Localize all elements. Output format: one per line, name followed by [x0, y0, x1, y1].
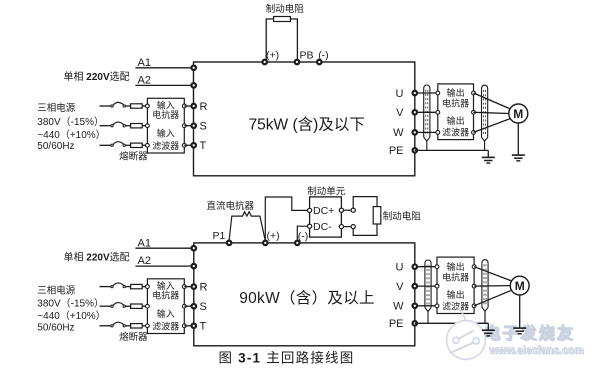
label W (bottom) — [393, 301, 404, 313]
label 单相220V选配 (top) — [64, 70, 130, 83]
filter output terminal R (top) — [182, 104, 186, 108]
svg-text:制动电阻: 制动电阻 — [266, 3, 305, 15]
label T (bottom) — [200, 321, 207, 333]
wire V to output filter (bottom) — [415, 285, 437, 287]
terminal A1 (top) — [191, 66, 196, 71]
label input reactor line2 (top) — [152, 109, 179, 120]
ground PE (bottom) — [482, 330, 495, 336]
label input reactor line1 (bottom) — [157, 280, 175, 291]
wire motor U (top) — [474, 93, 511, 109]
terminal A1 (bottom) — [192, 246, 197, 251]
connector terminal lower — [351, 225, 355, 229]
terminal PE (top) — [413, 148, 418, 153]
wire switch-fuse T (bottom) — [125, 325, 130, 327]
label R (bottom) — [200, 281, 208, 293]
label S (top) — [200, 121, 207, 133]
svg-text:(+): (+) — [267, 230, 280, 242]
svg-text:单相 220V选配: 单相 220V选配 — [64, 250, 130, 263]
terminal DC+ on braking unit — [308, 208, 312, 212]
svg-text:S: S — [200, 301, 207, 313]
svg-text:制动电阻: 制动电阻 — [383, 210, 422, 222]
breaker switch T (top) — [111, 142, 126, 147]
terminal PB — [295, 60, 300, 65]
ground motor (top) — [512, 155, 525, 161]
wire PB to braking resistor — [290, 19, 297, 62]
terminal U (bottom) — [413, 264, 418, 269]
fuse R (bottom) — [131, 284, 143, 288]
terminal DC- on braking unit — [308, 224, 312, 228]
label input filter line2 (top) — [152, 140, 179, 151]
wire (+) to DC+ — [265, 197, 307, 241]
svg-text:PB: PB — [300, 50, 314, 62]
label output reactor line2 (top) — [442, 98, 469, 109]
label 75kW rating — [249, 115, 365, 133]
label U (bottom) — [396, 262, 404, 274]
svg-text:R: R — [200, 281, 208, 293]
wire motor ground (bottom) — [519, 295, 521, 328]
svg-text:75kW (含)及以下: 75kW (含)及以下 — [249, 115, 365, 133]
label (+) terminal (bottom) — [267, 230, 280, 242]
label output filter line2 (top) — [442, 127, 469, 138]
output box right terminal U (top) — [472, 91, 476, 95]
label three-phase source (top) — [37, 102, 76, 114]
wire W to output filter (top) — [415, 131, 438, 133]
wire PE (bottom) — [415, 322, 489, 324]
svg-text:DC-: DC- — [313, 221, 332, 233]
breaker switch S (bottom) — [111, 303, 126, 308]
terminal S (top) — [191, 123, 196, 128]
input reactor/filter box (top) — [147, 98, 184, 153]
label W (top) — [393, 127, 404, 139]
motor M (bottom) — [510, 276, 529, 295]
wire A2 (bottom) — [135, 265, 193, 267]
svg-text:滤波器: 滤波器 — [442, 127, 469, 138]
fuse R (top) — [131, 104, 143, 108]
braking resistor RB (top) — [274, 17, 291, 22]
label DC- — [313, 221, 332, 233]
label PE (top) — [389, 145, 404, 157]
watermark logo circle — [447, 306, 486, 360]
terminal P1 — [227, 241, 232, 246]
motor M (top) — [509, 104, 528, 123]
terminal T (bottom) — [192, 324, 197, 329]
label braking resistor 制动电阻 (top) — [266, 3, 305, 15]
output box left terminal V (bottom) — [435, 284, 439, 288]
wire switch-fuse R (top) — [125, 105, 130, 107]
svg-text:图 3-1 主回路接线图: 图 3-1 主回路接线图 — [219, 349, 355, 365]
svg-text:三相电源: 三相电源 — [37, 285, 76, 297]
wire filter-drive S (top) — [184, 125, 193, 127]
svg-text:V: V — [396, 281, 404, 293]
label 50/60Hz (top) — [37, 141, 74, 152]
svg-text:电抗器: 电抗器 — [442, 98, 469, 109]
filter output terminal S (bottom) — [182, 304, 186, 308]
inverter drive box (90kW) — [194, 243, 415, 346]
svg-text:输出: 输出 — [447, 261, 465, 272]
svg-text:P1: P1 — [213, 230, 226, 242]
filter input terminal S (bottom) — [146, 304, 150, 308]
wire switch-fuse T (top) — [125, 144, 130, 146]
svg-text:DC+: DC+ — [313, 205, 334, 217]
output box left terminal U (top) — [436, 91, 440, 95]
svg-text:熔断器: 熔断器 — [119, 151, 148, 163]
label 380V -15% (top) — [37, 116, 104, 128]
svg-text:制动单元: 制动单元 — [307, 185, 346, 197]
wire fuse-filter T (top) — [142, 144, 147, 146]
wire source R (bottom) — [100, 286, 112, 288]
label R (top) — [200, 101, 208, 113]
label U (top) — [396, 88, 404, 100]
svg-text:R: R — [200, 101, 208, 113]
svg-text:A2: A2 — [138, 74, 151, 86]
terminal V (top) — [413, 110, 418, 115]
terminal V (bottom) — [413, 284, 418, 289]
fuse T (top) — [131, 143, 143, 147]
label A1 (top) — [138, 57, 151, 69]
label braking resistor 制动电阻 (bottom) — [383, 210, 422, 222]
wire fuse-filter R (bottom) — [142, 286, 147, 288]
wire switch-fuse S (top) — [125, 125, 130, 127]
terminal (-) (bottom) — [295, 241, 300, 246]
filter input terminal T (bottom) — [146, 324, 150, 328]
DC reactor L1 zigzag — [229, 212, 265, 241]
fuse S (top) — [131, 124, 143, 128]
svg-text:T: T — [200, 140, 207, 152]
terminal (+) (bottom) — [263, 241, 268, 246]
wire motor W (top) — [474, 119, 511, 133]
terminal A2 (bottom) — [192, 264, 197, 269]
wire U to output filter (bottom) — [415, 266, 437, 268]
output box right terminal V (top) — [472, 110, 476, 114]
svg-text:90kW（含）及以上: 90kW（含）及以上 — [239, 289, 375, 307]
label output filter line1 (top) — [447, 115, 465, 126]
label input reactor line1 (top) — [157, 100, 175, 111]
wire filter-drive T (bottom) — [184, 325, 193, 327]
breaker switch S (top) — [111, 122, 126, 127]
svg-text:输入: 输入 — [157, 308, 175, 319]
wire PE corner redraw (bottom) — [481, 322, 488, 324]
label input filter line1 (bottom) — [157, 308, 175, 319]
output box left terminal W (top) — [436, 131, 440, 135]
svg-text:A1: A1 — [138, 57, 151, 69]
breaker switch R (top) — [111, 102, 126, 107]
label 440 +10% (top) — [37, 129, 105, 141]
svg-text:U: U — [396, 88, 404, 100]
wire filter-drive R (top) — [184, 105, 193, 107]
svg-text:W: W — [393, 127, 404, 139]
label S (bottom) — [200, 301, 207, 313]
label PE (bottom) — [389, 318, 404, 330]
wire motor W (bottom) — [474, 290, 512, 306]
wire motor U (bottom) — [474, 267, 512, 281]
wire source T (top) — [100, 144, 112, 146]
fuse S (bottom) — [131, 304, 143, 308]
wire source S (bottom) — [100, 305, 112, 307]
svg-text:输入: 输入 — [157, 280, 175, 291]
label output filter line2 (bottom) — [442, 300, 469, 311]
filter output terminal S (top) — [182, 124, 186, 128]
ground motor (bottom) — [513, 328, 526, 334]
wire motor V (top) — [474, 112, 509, 113]
braking resistor RB (bottom) — [373, 207, 381, 224]
caption 图3-1 主回路接线图 — [219, 349, 355, 365]
filter output terminal T (top) — [182, 143, 186, 147]
ground PE (top) — [482, 157, 495, 163]
label A2 (top) — [138, 74, 151, 86]
svg-text:S: S — [200, 121, 207, 133]
label braking unit 制动单元 — [307, 185, 346, 197]
wire W to output filter (bottom) — [415, 305, 437, 307]
terminal PE (bottom) — [413, 321, 418, 326]
wire fuse-filter R (top) — [142, 105, 147, 107]
output reactor/filter box (top) — [438, 84, 474, 140]
output box left terminal U (bottom) — [435, 265, 439, 269]
connector terminal upper — [351, 208, 355, 212]
label input reactor line2 (bottom) — [152, 290, 179, 301]
label output reactor line1 (bottom) — [447, 261, 465, 272]
wire U to output filter (top) — [415, 92, 438, 94]
wire fuse-filter S (top) — [142, 125, 147, 127]
svg-text:(+): (+) — [266, 50, 279, 62]
label 90kW rating — [239, 289, 375, 307]
terminal R (bottom) — [192, 284, 197, 289]
svg-text:电抗器: 电抗器 — [152, 109, 179, 120]
wire motor ground (top) — [517, 123, 519, 155]
braking unit right terminal lower — [339, 225, 343, 229]
cable shield 1 (bottom) — [425, 260, 431, 323]
wire (+) to braking resistor — [266, 19, 273, 62]
filter input terminal T (top) — [146, 143, 150, 147]
wire PE (top) — [415, 149, 489, 151]
svg-text:V: V — [396, 107, 404, 119]
svg-text:T: T — [200, 321, 207, 333]
wire PE down to ground (top) — [487, 150, 489, 157]
terminal R (top) — [191, 104, 196, 109]
svg-text:W: W — [393, 301, 404, 313]
wire (-) to DC- — [297, 226, 307, 241]
svg-text:三相电源: 三相电源 — [37, 102, 76, 114]
label T (top) — [200, 140, 207, 152]
terminal W (top) — [413, 130, 418, 135]
label three-phase source (bottom) — [37, 285, 76, 297]
label 单相220V选配 (bottom) — [64, 250, 130, 263]
terminal T (top) — [191, 143, 196, 148]
svg-text:PE: PE — [389, 318, 404, 330]
wire source S (top) — [100, 125, 112, 127]
label A2 (bottom) — [138, 255, 151, 267]
svg-text:电抗器: 电抗器 — [152, 290, 179, 301]
label fuse 熔断器 (bottom) — [119, 331, 148, 343]
wire fuse-filter T (bottom) — [142, 325, 147, 327]
terminal U (top) — [413, 91, 418, 96]
breaker switch R (bottom) — [111, 283, 126, 288]
svg-text:A2: A2 — [138, 255, 151, 267]
wire switch-fuse R (bottom) — [125, 286, 130, 288]
svg-text:PE: PE — [389, 145, 404, 157]
svg-text:输入: 输入 — [157, 128, 175, 139]
svg-text:50/60Hz: 50/60Hz — [37, 141, 74, 152]
svg-text:A1: A1 — [138, 237, 151, 249]
wire filter-drive R (bottom) — [184, 286, 193, 288]
output box right terminal W (top) — [472, 131, 476, 135]
svg-text:滤波器: 滤波器 — [152, 320, 179, 331]
braking unit box — [310, 197, 342, 237]
wire V to output filter (top) — [415, 111, 438, 113]
svg-text:~440（+10%）: ~440（+10%） — [37, 310, 105, 322]
filter output terminal T (bottom) — [182, 324, 186, 328]
svg-text:熔断器: 熔断器 — [119, 331, 148, 343]
cable shield 2 (bottom) — [482, 260, 488, 324]
svg-text:50/60Hz: 50/60Hz — [37, 322, 74, 333]
wire motor V (bottom) — [474, 285, 510, 288]
svg-text:直流电抗器: 直流电抗器 — [207, 200, 255, 212]
label DC+ — [313, 205, 334, 217]
filter output terminal R (bottom) — [182, 285, 186, 289]
inverter drive box (75kW) — [194, 62, 415, 176]
label (+) terminal (top) — [266, 50, 279, 62]
label PB terminal — [300, 50, 314, 62]
svg-text:电子发烧友: 电子发烧友 — [484, 324, 575, 343]
wire A2 (top) — [135, 84, 193, 86]
svg-text:380V（-15%）: 380V（-15%） — [37, 116, 104, 128]
wire from braking resistor bottom — [353, 224, 377, 235]
terminal (-) (top) — [317, 60, 322, 65]
wire filter-drive S (bottom) — [184, 305, 193, 307]
wire shield drop redraw (bottom) — [484, 311, 486, 323]
label output reactor line2 (bottom) — [442, 271, 469, 282]
output box right terminal U (bottom) — [472, 265, 476, 269]
terminal A2 (top) — [191, 83, 196, 88]
label (-) terminal (top) — [318, 50, 329, 62]
output box left terminal W (bottom) — [435, 304, 439, 308]
terminal (+) (top) — [262, 60, 267, 65]
label V (bottom) — [396, 281, 404, 293]
fuse T (bottom) — [131, 324, 143, 328]
wire source T (bottom) — [100, 325, 112, 327]
svg-text:www.elecfans.com: www.elecfans.com — [488, 345, 583, 357]
output box left terminal V (top) — [436, 110, 440, 114]
svg-text:单相 220V选配: 单相 220V选配 — [64, 70, 130, 83]
svg-text:输入: 输入 — [157, 100, 175, 111]
output reactor/filter box (bottom) — [437, 257, 474, 313]
label output reactor line1 (top) — [447, 87, 465, 98]
svg-text:U: U — [396, 262, 404, 274]
label 50/60Hz (bottom) — [37, 322, 74, 333]
label output filter line1 (bottom) — [447, 289, 465, 300]
wire A1 (bottom) — [135, 247, 193, 249]
label (-) terminal (bottom) — [298, 231, 309, 243]
filter input terminal S (top) — [146, 124, 150, 128]
svg-text:输出: 输出 — [447, 87, 465, 98]
wire to braking resistor top — [353, 197, 377, 209]
svg-text:输出: 输出 — [447, 289, 465, 300]
svg-text:输出: 输出 — [447, 115, 465, 126]
label 380V -15% (bottom) — [37, 298, 104, 310]
input reactor/filter box (bottom) — [147, 279, 184, 334]
svg-text:380V（-15%）: 380V（-15%） — [37, 298, 104, 310]
svg-text:M: M — [513, 107, 523, 121]
watermark text www.elecfans.com — [488, 345, 584, 358]
terminal W (bottom) — [413, 304, 418, 309]
label DC reactor 直流电抗器 — [207, 200, 255, 212]
filter input terminal R (bottom) — [146, 285, 150, 289]
label A1 (bottom) — [138, 237, 151, 249]
wire braking unit out upper — [341, 209, 353, 211]
label input filter line1 (top) — [157, 128, 175, 139]
filter input terminal R (top) — [146, 104, 150, 108]
watermark text 电子发烧友 — [484, 324, 576, 344]
svg-text:滤波器: 滤波器 — [152, 140, 179, 151]
breaker switch T (bottom) — [111, 322, 126, 327]
label 440 +10% (bottom) — [37, 310, 105, 322]
wire fuse-filter S (bottom) — [142, 305, 147, 307]
wire switch-fuse S (bottom) — [125, 305, 130, 307]
svg-text:~440（+10%）: ~440（+10%） — [37, 129, 105, 141]
label V (top) — [396, 107, 404, 119]
cable shield 2 (top) — [482, 85, 488, 150]
wire source R (top) — [100, 105, 112, 107]
wire braking unit out lower — [341, 226, 353, 228]
terminal S (bottom) — [192, 304, 197, 309]
svg-text:M: M — [515, 279, 525, 293]
output box right terminal V (bottom) — [472, 284, 476, 288]
output box right terminal W (bottom) — [472, 304, 476, 308]
label input filter line2 (bottom) — [152, 320, 179, 331]
wire filter-drive T (top) — [184, 144, 193, 146]
label P1 — [213, 230, 226, 242]
cable shield 1 (top) — [424, 85, 430, 150]
braking unit right terminal upper — [339, 208, 343, 212]
label fuse 熔断器 (top) — [119, 151, 148, 163]
svg-text:电抗器: 电抗器 — [442, 271, 469, 282]
wire A1 (top) — [135, 67, 193, 69]
wire PE down to ground (bottom) — [487, 323, 489, 330]
